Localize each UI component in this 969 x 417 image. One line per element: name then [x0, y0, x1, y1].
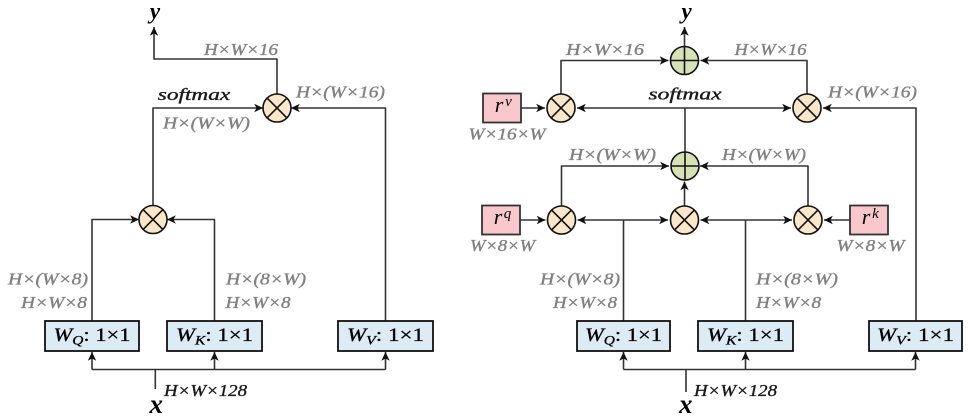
wire y output (right): [684, 27, 686, 46]
svg-text:H×(W×W): H×(W×W): [721, 145, 806, 164]
svg-text:W×16×W: W×16×W: [469, 125, 547, 144]
wire T to mid multiply (right): [624, 219, 669, 221]
svg-text:WK: 1×1: WK: 1×1: [176, 325, 253, 348]
svg-text:y: y: [147, 0, 161, 24]
arrow stub into W_V (right): [915, 352, 917, 370]
svg-text:WV: 1×1: WV: 1×1: [877, 325, 954, 348]
svg-text:softmax: softmax: [649, 85, 723, 104]
svg-text:H×(W×8): H×(W×8): [539, 270, 620, 289]
svg-text:r: r: [494, 204, 503, 229]
box W_Q (left): [45, 321, 139, 351]
svg-text:r: r: [862, 204, 871, 229]
wire r^k into right mid multiply (right): [824, 219, 850, 221]
wire from W_V riser (right): [823, 108, 916, 321]
wire from W_V to top multiply (left): [291, 108, 386, 321]
multiply node mid-mid (right): [671, 206, 699, 234]
svg-text:WV: 1×1: WV: 1×1: [347, 325, 424, 348]
add node top (right): [671, 47, 699, 75]
wire r^q into left mid multiply (right): [520, 219, 546, 221]
svg-text:H×(W×16): H×(W×16): [827, 83, 917, 102]
arrow stub into W_K (right): [745, 352, 747, 370]
W_Q riser and T junction (right): [623, 220, 625, 321]
svg-text:k: k: [872, 206, 879, 222]
x input stub (left): [154, 370, 156, 390]
arrow stub into W_V (left): [385, 352, 387, 370]
box r^k (right): [850, 204, 888, 235]
wire right mid multiply to mid add (right): [700, 166, 808, 206]
svg-text:v: v: [505, 94, 512, 110]
svg-text:softmax: softmax: [158, 85, 231, 104]
multiply node top-left (right): [547, 94, 575, 122]
arrow stub into W_Q (left): [91, 352, 93, 370]
svg-text:H×W×8: H×W×8: [755, 293, 822, 312]
svg-text:H×W×128: H×W×128: [693, 381, 778, 400]
multiply node top-right (right): [793, 94, 821, 122]
svg-text:H×(8×W): H×(8×W): [755, 270, 838, 289]
softmax riser from mid add (right): [684, 108, 686, 152]
svg-text:WK: 1×1: WK: 1×1: [707, 325, 784, 348]
svg-text:W×8×W: W×8×W: [470, 236, 536, 255]
box W_V (left): [338, 321, 433, 351]
box W_K (left): [167, 321, 262, 351]
svg-text:r: r: [495, 92, 504, 117]
multiply node mid (left): [139, 206, 167, 234]
svg-text:H×W×8: H×W×8: [224, 293, 291, 312]
box W_V (right): [869, 321, 962, 351]
wire from W_Q to mid multiply (left): [92, 220, 139, 322]
wire left top multiply to add (right): [561, 61, 669, 95]
wire mid multiply output into mid add (right): [684, 182, 686, 207]
bottom bus (left): [92, 369, 386, 371]
svg-text:q: q: [504, 206, 512, 222]
box r^v (right): [483, 92, 521, 123]
multiply node top (left): [263, 94, 291, 122]
box r^q (right): [482, 204, 520, 235]
x input stub (right): [685, 370, 687, 393]
wire y output (left): [154, 27, 277, 94]
svg-text:H×W×8: H×W×8: [552, 293, 618, 312]
arrow stub into W_Q (right): [623, 352, 625, 370]
softmax bus left arrow (right): [577, 107, 685, 109]
svg-text:x: x: [678, 389, 693, 417]
svg-text:y: y: [678, 0, 692, 23]
wire r^v into left top multiply (right): [521, 107, 545, 109]
box W_K (right): [698, 321, 793, 351]
svg-text:H×W×128: H×W×128: [163, 381, 248, 400]
softmax bus right arrow (right): [685, 107, 792, 109]
svg-text:WQ: 1×1: WQ: 1×1: [54, 325, 131, 348]
wire T to left mid multiply (right): [578, 219, 624, 221]
svg-text:x: x: [149, 389, 164, 417]
svg-text:H×W×16: H×W×16: [565, 40, 645, 59]
svg-text:H×(W×8): H×(W×8): [7, 270, 88, 289]
multiply node mid-right (right): [794, 206, 822, 234]
svg-text:H×W×16: H×W×16: [733, 40, 807, 59]
box W_Q (right): [577, 321, 670, 351]
wire softmax into top multiply (left): [153, 108, 263, 206]
svg-text:H×(W×16): H×(W×16): [295, 83, 385, 102]
add node mid (right): [671, 152, 699, 180]
wire left mid multiply to mid add (right): [562, 166, 670, 206]
multiply node mid-left (right): [548, 206, 576, 234]
wire from W_K to mid multiply (left): [167, 220, 215, 322]
svg-text:W×8×W: W×8×W: [837, 236, 906, 255]
svg-text:WQ: 1×1: WQ: 1×1: [585, 325, 662, 348]
arrow stub into W_K (left): [214, 352, 216, 370]
svg-text:H×(W×W): H×(W×W): [568, 145, 656, 164]
svg-text:H×(8×W): H×(8×W): [225, 270, 306, 289]
wire T to right mid multiply (right): [746, 219, 793, 221]
wire right top multiply to add (right): [701, 61, 808, 95]
svg-text:H×W×8: H×W×8: [20, 293, 88, 312]
svg-text:H×(W×W): H×(W×W): [162, 114, 250, 133]
bottom bus (right): [624, 369, 916, 371]
W_K riser and T junction (right): [745, 220, 747, 321]
wire T to mid multiply right side (right): [701, 219, 746, 221]
svg-text:H×W×16: H×W×16: [203, 40, 279, 59]
